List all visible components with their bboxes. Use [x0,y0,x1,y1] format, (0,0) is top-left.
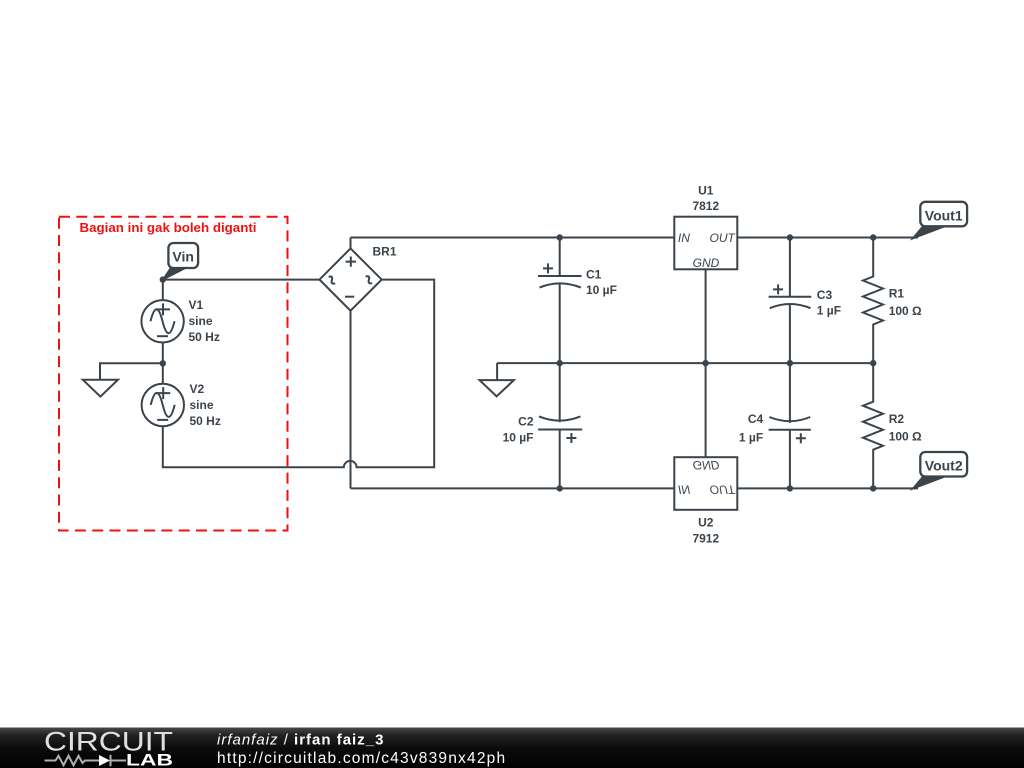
svg-text:100 Ω: 100 Ω [889,430,922,444]
svg-text:IN: IN [678,231,690,245]
svg-text:OUT: OUT [710,231,737,245]
svg-text:50 Hz: 50 Hz [190,414,221,428]
svg-text:10 µF: 10 µF [503,431,534,445]
svg-text:C1: C1 [586,268,602,282]
svg-text:http://circuitlab.com/c43v839n: http://circuitlab.com/c43v839nx42ph [217,750,506,767]
svg-text:BR1: BR1 [373,245,397,259]
svg-text:1 µF: 1 µF [817,303,841,317]
svg-text:GND: GND [693,458,720,472]
svg-text:irfanfaiz / irfan faiz_3: irfanfaiz / irfan faiz_3 [217,732,384,749]
svg-text:100 Ω: 100 Ω [889,304,922,318]
svg-text:10 µF: 10 µF [586,283,617,297]
svg-text:LAB: LAB [126,752,173,768]
svg-text:OUT: OUT [710,482,737,496]
svg-text:U1: U1 [698,184,714,198]
svg-text:V1: V1 [189,298,204,312]
svg-text:V2: V2 [190,382,205,396]
svg-text:R1: R1 [889,287,905,301]
svg-text:7812: 7812 [692,199,719,213]
svg-text:Vin: Vin [172,249,194,265]
svg-text:Vout2: Vout2 [925,458,963,474]
svg-text:1 µF: 1 µF [739,431,763,445]
svg-text:7912: 7912 [692,531,719,545]
svg-text:Vout1: Vout1 [925,208,963,224]
svg-text:sine: sine [190,398,214,412]
svg-text:R2: R2 [889,412,905,426]
svg-text:C3: C3 [817,288,833,302]
svg-text:IN: IN [678,482,690,496]
svg-text:GND: GND [693,256,720,270]
svg-text:C4: C4 [748,412,764,426]
svg-text:Bagian ini gak boleh diganti: Bagian ini gak boleh diganti [80,220,257,235]
svg-text:U2: U2 [698,516,714,530]
svg-text:C2: C2 [518,415,534,429]
svg-text:50 Hz: 50 Hz [189,330,220,344]
svg-text:sine: sine [189,314,213,328]
